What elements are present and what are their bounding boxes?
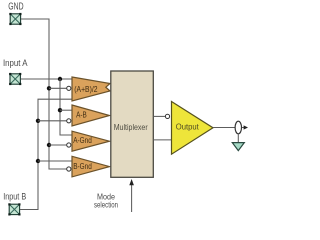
svg-text:A-Gnd: A-Gnd xyxy=(73,136,92,145)
amp U4 B-Gnd xyxy=(72,156,110,177)
wire GND to amp3 bubble xyxy=(49,144,66,146)
wire A bus xyxy=(60,79,73,135)
wire mode selection arrow xyxy=(131,184,133,213)
inverting bubble amp U2 xyxy=(67,119,71,123)
amp U2 A-B xyxy=(72,105,110,126)
inverting bubble amp U3 xyxy=(67,143,71,147)
junction GND bus to amp3 xyxy=(47,143,51,147)
wire mux to output amp inverting xyxy=(153,115,165,117)
junction A bus to amp2 xyxy=(58,108,62,112)
wire A to amp2 xyxy=(60,109,73,111)
junction GND bus to amp1 xyxy=(47,86,51,90)
amp U1 (A+B)/2 xyxy=(72,77,110,101)
arrowhead output xyxy=(244,125,248,129)
port Input A xyxy=(9,73,21,85)
probe ellipse xyxy=(235,121,241,134)
svg-text:selection: selection xyxy=(94,199,118,209)
inverting bubble amp U1 xyxy=(67,86,71,90)
svg-text:Multiplexer: Multiplexer xyxy=(114,123,148,132)
svg-text:Input A: Input A xyxy=(3,58,28,68)
port Input B xyxy=(8,203,20,215)
inverting bubble amp U4 xyxy=(67,167,71,171)
wire mux to output amp noninverting xyxy=(153,139,171,141)
arrowhead mode selection xyxy=(129,179,134,185)
junction B bus to amp4 xyxy=(36,159,40,163)
svg-text:(A+B)/2: (A+B)/2 xyxy=(74,85,98,94)
wire GND to amp1 bubble xyxy=(49,87,66,89)
svg-text:Output: Output xyxy=(176,122,200,131)
junction B bus to amp2 xyxy=(36,119,40,123)
wire Input A to amp1 xyxy=(21,78,73,80)
op-amp Output xyxy=(172,102,214,155)
wire B to amp2 bubble xyxy=(38,120,66,122)
amp U3 A-Gnd xyxy=(72,131,110,151)
svg-text:GND: GND xyxy=(8,1,23,12)
svg-text:Input B: Input B xyxy=(3,191,26,201)
svg-text:B-Gnd: B-Gnd xyxy=(73,162,92,171)
port GND xyxy=(9,13,21,25)
ground xyxy=(232,143,244,151)
multiplexer block xyxy=(111,71,154,177)
junction A bus tap xyxy=(58,77,62,81)
inverting bubble output amp xyxy=(165,114,169,118)
svg-text:A-B: A-B xyxy=(76,110,87,119)
wire GND bus xyxy=(21,19,67,169)
wire B to amp4 xyxy=(38,160,73,162)
wire B bus xyxy=(20,99,73,209)
wire output xyxy=(213,127,244,129)
wire probe to ground xyxy=(237,134,239,143)
